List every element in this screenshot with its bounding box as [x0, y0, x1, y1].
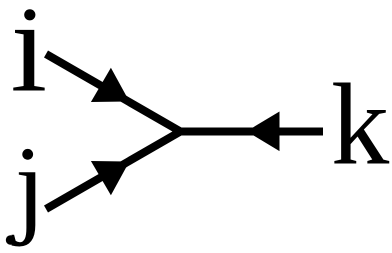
arrowhead on horizontal line (points left toward vertex) — [247, 112, 280, 152]
svg-text:ȷ: ȷ — [11, 125, 46, 247]
dot of i — [24, 9, 35, 20]
svg-text:k: k — [331, 61, 390, 190]
arrowhead on lower line (points toward vertex) — [91, 161, 129, 195]
wire: upper diagonal from i to vertex — [46, 54, 183, 133]
arrowhead on upper line (points toward vertex) — [91, 68, 129, 102]
wire: horizontal from vertex to k — [177, 128, 323, 136]
ball terminal of j hook — [6, 235, 15, 244]
dot of j — [22, 149, 33, 160]
wire: lower diagonal from j to vertex — [46, 130, 183, 209]
